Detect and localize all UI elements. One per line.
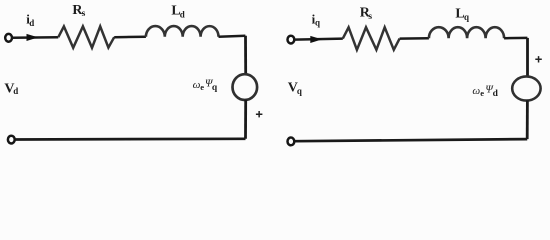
wire top-left horizontal (q) <box>295 39 343 40</box>
wire resistor-to-inductor (left) <box>114 35 146 38</box>
svg-text:e: e <box>200 82 204 92</box>
svg-text:q: q <box>212 83 218 93</box>
svg-text:q: q <box>297 86 302 96</box>
bottom rail (right) <box>295 139 528 141</box>
terminal bottom-left (d) <box>8 136 15 144</box>
wire inductor-to-corner (left) <box>219 35 246 38</box>
resistor Rs (right) <box>343 27 400 50</box>
svg-text:d: d <box>13 86 18 96</box>
voltage source circle (left) <box>233 74 258 100</box>
terminal bottom-left (q) <box>288 138 295 146</box>
wire right vertical down to source (left) <box>244 36 247 75</box>
resistor Rs (left) <box>58 26 114 47</box>
svg-text:q: q <box>315 18 320 28</box>
svg-text:s: s <box>368 12 372 22</box>
wire resistor-to-inductor (right) <box>400 37 429 40</box>
svg-text:d: d <box>493 89 499 99</box>
svg-text:d: d <box>180 9 185 19</box>
wire right vertical down to source (right) <box>526 38 529 77</box>
svg-text:e: e <box>480 88 484 98</box>
terminal top-left (d) <box>5 34 12 42</box>
bottom rail (left) <box>15 137 246 140</box>
current arrow i_q <box>310 36 322 43</box>
plus sign (right source) <box>535 56 542 62</box>
terminal top-left (q) <box>288 36 295 44</box>
svg-text:ω: ω <box>472 85 480 97</box>
plus sign (left source) <box>256 111 263 117</box>
wire below source down (left) <box>244 100 247 139</box>
inductor Ld <box>146 26 219 37</box>
wire top-left horizontal <box>12 36 58 39</box>
inductor Lq <box>429 27 504 38</box>
svg-text:s: s <box>82 9 86 19</box>
wire inductor-to-corner (right) <box>504 37 527 40</box>
current arrow i_d <box>27 34 39 41</box>
wire below source down (right) <box>526 100 529 139</box>
svg-text:q: q <box>464 12 469 22</box>
voltage source circle (right) <box>512 76 540 100</box>
svg-text:d: d <box>29 18 34 28</box>
